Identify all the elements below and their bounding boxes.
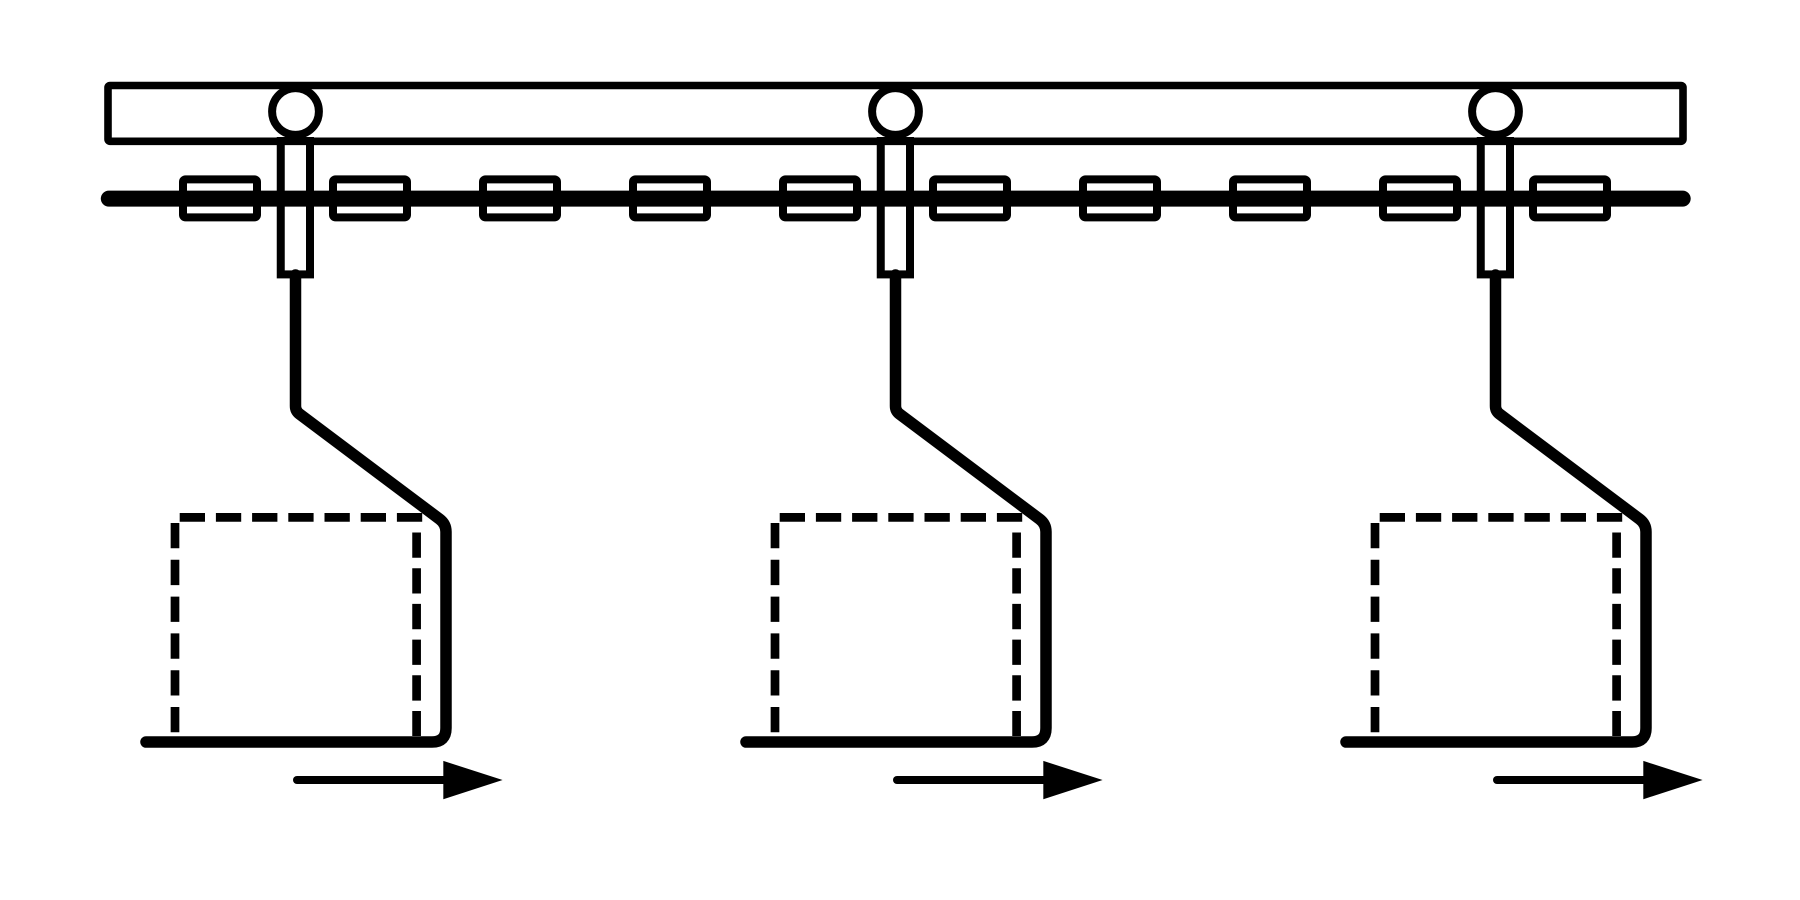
chain link 6 xyxy=(933,179,1007,217)
load box 2 dashed left edge xyxy=(771,523,780,735)
motion arrow 3 shaft xyxy=(1497,776,1645,784)
motion arrow 2 head xyxy=(1043,761,1102,799)
motion arrow 3 head xyxy=(1643,761,1702,799)
load box 3 dashed left edge xyxy=(1371,523,1380,735)
trolley 1 wheel xyxy=(272,88,319,135)
trolley 3 wheel xyxy=(1472,88,1519,135)
chain link 7 xyxy=(1083,179,1157,217)
hanger rod 2 xyxy=(746,275,1046,742)
chain link 8 xyxy=(1233,179,1307,217)
chain link 1 xyxy=(183,179,257,217)
trolley 2 shaft xyxy=(881,141,910,274)
chain link 2 xyxy=(333,179,407,217)
trolley 3 shaft xyxy=(1481,141,1510,274)
load box 1 dashed left edge xyxy=(171,523,180,735)
hanger rod 1 xyxy=(146,275,446,742)
load box 2 dashed top edge xyxy=(780,513,1023,522)
trolley 2 wheel xyxy=(872,88,919,135)
overhead rail beam xyxy=(108,86,1683,142)
conveyor chain line xyxy=(109,191,1683,207)
load box 3 dashed right edge xyxy=(1612,533,1621,737)
chain link 4 xyxy=(633,179,707,217)
chain link 5 xyxy=(783,179,857,217)
chain link 10 xyxy=(1533,179,1607,217)
hanger rod 3 xyxy=(1346,275,1646,742)
trolley 1 shaft xyxy=(281,141,310,274)
load box 3 dashed top edge xyxy=(1380,513,1623,522)
motion arrow 2 shaft xyxy=(897,776,1045,784)
chain link 3 xyxy=(483,179,557,217)
load box 1 dashed top edge xyxy=(180,513,423,522)
load box 1 dashed right edge xyxy=(412,533,421,737)
motion arrow 1 shaft xyxy=(297,776,445,784)
chain link 9 xyxy=(1383,179,1457,217)
load box 2 dashed right edge xyxy=(1012,533,1021,737)
motion arrow 1 head xyxy=(443,761,502,799)
